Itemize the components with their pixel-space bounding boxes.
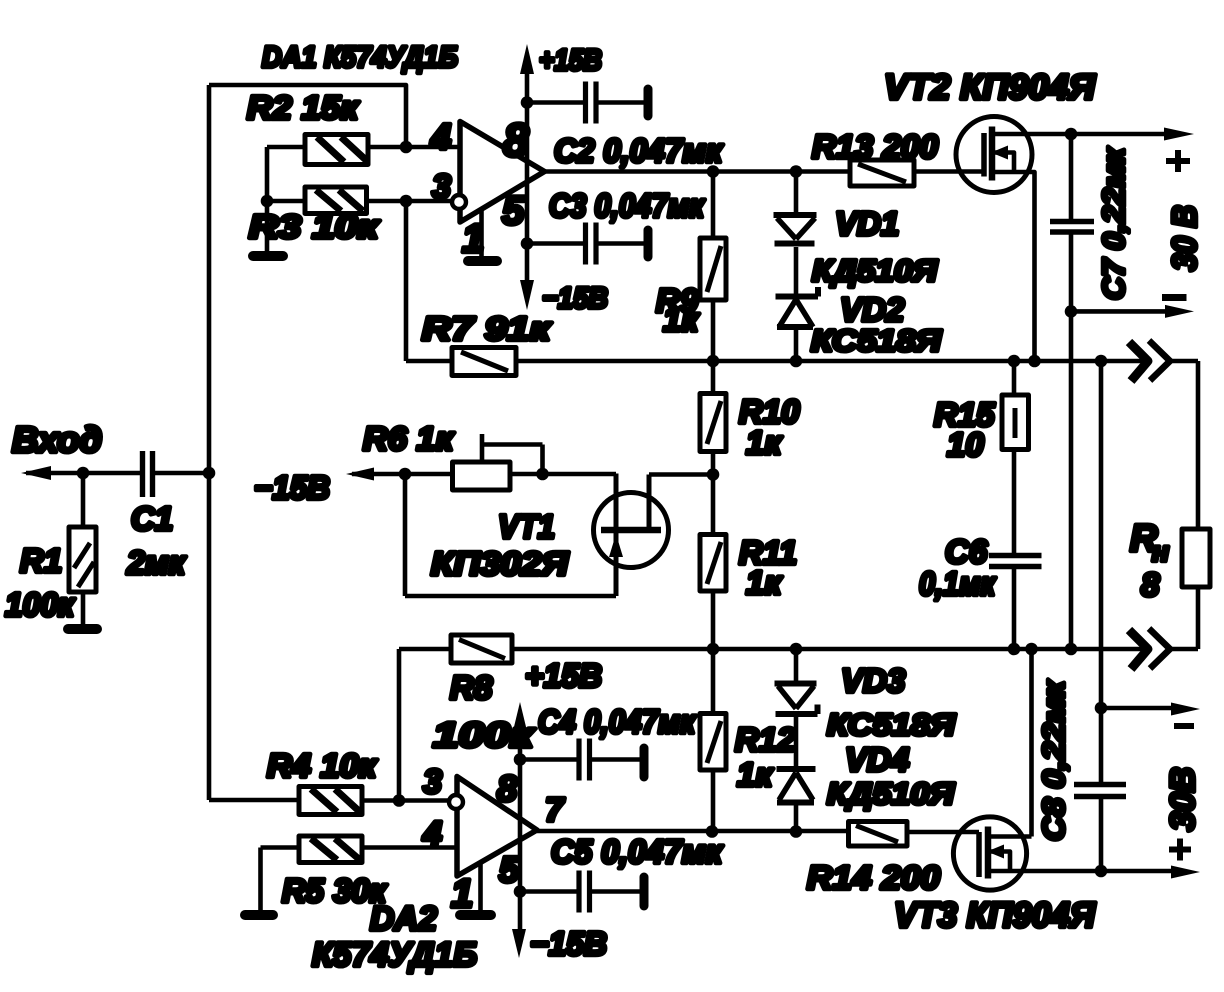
capacitor C5 [520, 871, 644, 913]
resistor R12 [700, 649, 726, 832]
svg-text:−15В: −15В [530, 925, 607, 962]
node drain rail C7 junction [1065, 128, 1078, 141]
node upper rail R9 junction [707, 355, 720, 368]
transistor VT1 [594, 474, 669, 597]
svg-text:1: 1 [451, 872, 473, 916]
diode VD4 [777, 769, 816, 832]
diode VD3 zener [775, 649, 818, 767]
svg-text:1к: 1к [746, 424, 783, 461]
resistor R6 trimmer [453, 434, 543, 490]
node output R12 junction [706, 825, 719, 838]
node upper rail R15 junction [1008, 355, 1021, 368]
svg-text:+15В: +15В [539, 44, 602, 77]
capacitor C7 [1050, 134, 1094, 651]
node inverting input junction DA1 [400, 195, 413, 208]
svg-text:1к: 1к [663, 301, 700, 338]
node upper rail C8 junction [1095, 355, 1108, 368]
node R2 output junction [400, 141, 413, 154]
svg-text:100к: 100к [5, 586, 76, 623]
ground under R3 [253, 251, 283, 261]
node lower rail VD3 junction [790, 643, 803, 656]
svg-text:1к: 1к [737, 756, 774, 793]
svg-text:2мк: 2мк [126, 544, 187, 581]
resistor R2 [267, 135, 460, 165]
wire VT1 gate loop [405, 474, 616, 596]
transistor VT2 [956, 117, 1035, 362]
node C2 junction [521, 96, 534, 109]
resistor R1 [69, 473, 96, 625]
svg-text:КД510Я: КД510Я [827, 776, 956, 811]
node C4 junction [514, 753, 527, 766]
wire R6 to VT1 [543, 472, 617, 477]
svg-text:КС518Я: КС518Я [811, 323, 943, 358]
wire top feedback to DA1 input [209, 85, 406, 147]
op-amp DA2 [449, 777, 537, 877]
power +15V arrow DA2 [512, 702, 527, 958]
svg-text:R1: R1 [20, 542, 62, 579]
node output R9 junction [707, 165, 720, 178]
svg-text:30В: 30В [1164, 767, 1202, 831]
node lower rail C7 junction [1065, 643, 1078, 656]
svg-text:DA2: DA2 [370, 900, 437, 938]
wire VT1 drain to ladder [649, 472, 713, 477]
node R4 output junction [393, 794, 406, 807]
svg-text:R2 15к: R2 15к [247, 89, 360, 126]
svg-text:VT1: VT1 [498, 508, 555, 545]
svg-text:R13 200: R13 200 [812, 128, 939, 165]
diode VD1 [774, 172, 817, 297]
resistor Rn load [1182, 529, 1210, 587]
node R3 left junction [261, 195, 274, 208]
svg-text:R8: R8 [450, 669, 493, 706]
node C8 common junction [1095, 702, 1108, 715]
svg-text:5: 5 [502, 189, 525, 233]
svg-text:10: 10 [947, 426, 984, 463]
svg-text:VT2 КП904Я: VT2 КП904Я [884, 68, 1097, 107]
node VT1 drain junction [707, 468, 720, 481]
node output VD1 junction [790, 165, 803, 178]
resistor R4 [209, 787, 449, 815]
power +15V arrow DA1 [520, 44, 534, 310]
label plus bottom [1169, 839, 1191, 861]
svg-text:DA1 К574УД1Б: DA1 К574УД1Б [262, 41, 458, 74]
power -15V arrow R6 [346, 468, 453, 481]
svg-text:8: 8 [497, 768, 517, 809]
svg-text:C7 0,22мк: C7 0,22мк [1096, 147, 1131, 300]
node bottom rail C8 junction [1095, 865, 1108, 878]
svg-text:R3 10к: R3 10к [249, 208, 381, 245]
svg-text:R12: R12 [735, 721, 796, 758]
resistor R10 [700, 361, 726, 475]
svg-text:1к: 1к [746, 564, 783, 601]
wire R8 branch to DA2 input [397, 649, 402, 801]
ground under R5 [245, 910, 273, 920]
wire R2/R3 left link [265, 147, 270, 252]
svg-text:C5 0,047мк: C5 0,047мк [551, 833, 724, 870]
capacitor C3 [527, 223, 648, 265]
ground under DA2 [460, 862, 491, 915]
ground under R1 [68, 624, 97, 634]
svg-text:C4 0,047мк: C4 0,047мк [538, 703, 697, 740]
resistor R13 [850, 160, 984, 186]
node input junction [77, 467, 90, 480]
node output VD4 junction [790, 825, 803, 838]
output chevron lower [1129, 630, 1148, 669]
node C1 right junction [203, 467, 216, 480]
capacitor C4 [520, 739, 644, 781]
svg-text:−15В: −15В [542, 282, 608, 315]
svg-text:7: 7 [545, 791, 565, 828]
node R6 left junction [399, 468, 412, 481]
resistor R15 [1002, 361, 1029, 553]
capacitor C6 [989, 556, 1042, 651]
wire DA2 output line [537, 829, 849, 834]
svg-text:КП302Я: КП302Я [431, 545, 569, 582]
svg-text:C8 0,22мк: C8 0,22мк [1036, 680, 1071, 841]
svg-text:VD3: VD3 [841, 662, 905, 699]
label plus top [1166, 150, 1190, 172]
node C7 common junction [1065, 305, 1078, 318]
svg-text:3: 3 [423, 763, 442, 801]
svg-text:30 В: 30 В [1166, 205, 1204, 271]
svg-text:КС518Я: КС518Я [827, 707, 957, 742]
node R6 tap junction [536, 468, 549, 481]
svg-text:К574УД1Б: К574УД1Б [312, 936, 477, 974]
node lower rail R11 junction [707, 643, 720, 656]
svg-text:4: 4 [422, 815, 442, 853]
resistor R11 [700, 475, 726, 650]
common output arrow top [1071, 298, 1194, 318]
svg-text:КД510Я: КД510Я [812, 253, 939, 288]
wire left main vertical [207, 85, 212, 800]
svg-text:R14 200: R14 200 [807, 859, 941, 896]
svg-text:5: 5 [499, 849, 520, 890]
capacitor C1 [143, 451, 210, 497]
wire DA1 output line [545, 169, 851, 174]
output chevron upper [1129, 342, 1148, 381]
op-amp DA1 [452, 122, 545, 223]
node upper rail VT2 source junction [1028, 355, 1041, 368]
node lower rail VT3 drain junction [1025, 643, 1038, 656]
input terminal arrow [21, 466, 141, 480]
wire VT2 drain rail [1032, 132, 1168, 137]
resistor R7 in upper rail [406, 348, 1198, 376]
svg-text:3: 3 [432, 168, 451, 206]
common output arrow bottom [1101, 703, 1200, 727]
node C5 junction [514, 885, 527, 898]
svg-text:4: 4 [430, 116, 451, 157]
svg-text:0,1мк: 0,1мк [919, 565, 997, 602]
transistor VT3 [953, 649, 1031, 890]
node lower rail C6 junction [1008, 643, 1021, 656]
power +30V arrow bottom [1171, 866, 1200, 879]
svg-text:R6 1к: R6 1к [363, 420, 455, 457]
svg-text:C1: C1 [131, 500, 173, 537]
resistor R5 [261, 836, 458, 863]
wire lower rail corner to Rn [1196, 587, 1201, 649]
resistor R9 [700, 172, 726, 362]
svg-text:8: 8 [1141, 566, 1160, 603]
capacitor C8 [1074, 361, 1126, 871]
svg-text:н: н [1152, 536, 1169, 567]
svg-text:C2 0,047мк: C2 0,047мк [554, 132, 724, 169]
label Rн [1130, 518, 1169, 567]
ground under DA1 [468, 210, 497, 261]
capacitor C2 [527, 82, 648, 124]
resistor R3 [267, 187, 452, 214]
power +30V arrow top [1164, 128, 1194, 141]
diode VD2 zener [776, 287, 819, 361]
svg-text:R7 91к: R7 91к [422, 310, 553, 347]
svg-text:C3 0,047мк: C3 0,047мк [549, 187, 706, 224]
wire inverting node to R7 [404, 201, 409, 361]
node upper rail VD2 junction [790, 355, 803, 368]
svg-text:+15В: +15В [525, 657, 602, 694]
svg-text:VD1: VD1 [835, 205, 899, 242]
svg-text:VT3 КП904Я: VT3 КП904Я [894, 896, 1096, 935]
node C3 junction [521, 237, 534, 250]
svg-text:VD4: VD4 [845, 741, 909, 778]
wire VT3 source bottom rail [988, 869, 1174, 874]
svg-text:R4 10к: R4 10к [267, 747, 378, 784]
svg-text:Вход: Вход [12, 419, 102, 460]
svg-text:−15В: −15В [254, 469, 330, 506]
wire upper rail corner to Rn [1196, 361, 1201, 529]
resistor R8 in lower rail [399, 635, 1198, 663]
resistor R14 [849, 822, 980, 847]
wire R5 to ground [258, 848, 263, 912]
